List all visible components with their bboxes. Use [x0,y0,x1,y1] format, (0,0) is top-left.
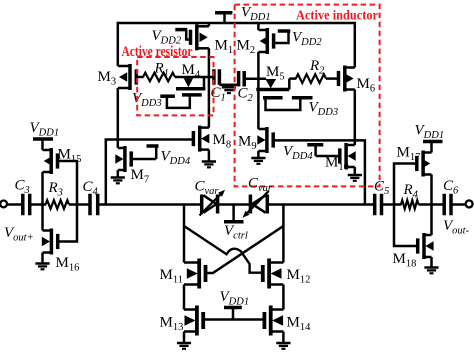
transistor M2 [266,28,270,54]
wire M13 source to ground [183,332,186,344]
wire M2 drain to rail [257,23,260,30]
wire M3 gate lead to R1 [136,76,143,79]
transistor M11 [197,259,201,289]
transistor M6 [343,66,347,92]
capacitor C4 [88,194,92,216]
ground below M18 [424,266,438,269]
wire M11 source to M13 drain [183,285,186,310]
wire M7 source to ground [117,170,120,178]
transistor M7 [123,146,127,172]
wire main line to M16 drain [41,205,44,231]
wire M1 source down to node A [208,48,211,127]
ground shared C1-C2 [222,86,236,89]
capacitor C3 [21,194,25,216]
wire M1 drain to rail [208,23,211,26]
wire C1 inner plate to ground [219,84,229,87]
power V_DD3 bias bar left [160,94,175,98]
wire right outer vertical (M6 to M10 drain) [354,90,357,146]
wire M7 gate lead [131,158,156,161]
power V_DD3 bias bar right [292,96,313,100]
wire C3 to R3 [30,203,46,206]
transistor M8 [198,126,202,152]
wire M9 gate horizontal to output junction [273,140,365,204]
wire left tank branch down to M11 [183,205,186,263]
wire VDD1 to M17 [430,142,433,153]
port Vout+ terminal [0,201,7,208]
wire M15 gate to main line [58,161,78,205]
transistor M3 [128,64,132,90]
wire R3 to C4 [69,203,90,206]
ground below M10 [348,174,362,177]
wire main line varactor segment [218,203,251,206]
resistor R3 [46,200,70,209]
wire M10 source to ground [354,167,357,175]
port Vout- terminal [466,200,473,207]
wire C2 to M5 node [244,77,266,80]
wire M16 gate to main line [58,205,77,242]
wire M14 source to ground [282,332,285,344]
transistor M10 [344,143,348,169]
power V_DD1 bar left [33,137,53,141]
ground below M16 [35,262,49,265]
varactor C_var left [200,195,204,214]
capacitor C1 [212,69,216,85]
transistor M16 [50,229,54,255]
wire V_ctrl stub [232,205,235,222]
transistor M15 [49,148,53,174]
transistor M9 [265,127,269,153]
wire M8 gate horizontal to left junction [106,140,194,205]
wire C5 to R4 [382,203,402,206]
resistor R2 [296,74,326,83]
ground below M8 [202,160,216,163]
transistor M13 [195,306,199,336]
wire M18 source to ground [430,257,433,268]
wire C2 inner plate to ground [229,84,239,87]
power V_DD1 bar bottom [224,306,242,310]
transistor M17 [421,151,425,177]
transistor M14 [269,306,273,336]
wire cross-couple diagonal right-to-left (M12 drain node to M11 gate) [206,226,284,273]
wire C6 to port [451,203,466,206]
wire VDD1 to M15 [41,139,44,150]
wire right outer vertical (rail to M6) [354,22,357,68]
wire right tank branch down to M12 [282,205,285,263]
capacitor C6 [442,194,446,216]
power V_ctrl bar [224,220,244,224]
wire M13-M14 gate line [203,318,264,321]
wire R2 to M6 gate [326,77,339,80]
ground below M9 [251,157,265,160]
power V_DD2 bias bar right [278,29,291,33]
svg-text:Active resistor: Active resistor [122,44,193,60]
annotation box Active inductor [235,5,380,187]
wire node A horizontal (R1 to C1) [175,76,214,79]
wire main line to M18 drain [430,205,433,236]
power V_DD4 bias bar right [307,143,323,147]
wire M15 to main line [41,172,44,205]
wire M9 source to ground [257,151,260,158]
ground below M13 [177,342,191,345]
wire M2 source down to M9 drain [257,52,260,129]
wire M17 to main line [430,175,433,205]
wire top VDD1 rail [118,22,355,25]
svg-text:Active inductor: Active inductor [296,9,378,24]
wire R4 to C6 [419,203,445,206]
power V_DD2 bias bar left [175,28,187,32]
power V_DD1 bar right [423,140,443,144]
wire C4 to varactor section [98,203,202,206]
wire left outer vertical (M3 to M7) [117,88,120,148]
wire port to C3 [7,203,23,206]
transistor M5 (horizontal) [265,79,276,88]
transistor M1 [195,24,199,50]
annotation box Active resistor [137,57,213,115]
varactor C_var right [249,195,253,214]
wire cross-couple diagonal left-to-right with hop (M11 drain node to M12 gate) [184,226,262,273]
transistor M12 [267,259,271,289]
capacitor C2 [237,71,241,87]
capacitor C5 [373,194,377,216]
wire M5 to R2 [289,77,296,80]
wire main line right of varactors [267,203,374,206]
wire M12 source to M14 drain [282,285,285,310]
ground below M7 [111,176,125,179]
ground below M14 [276,342,290,345]
resistor R4 [401,200,419,209]
transistor M18 [422,233,426,259]
power V_DD4 bias bar left [147,144,159,148]
wire M8 source to ground [208,150,211,162]
power V_DD1 top supply bar [215,11,232,15]
wire M17 gate to main line [394,164,417,205]
wire left outer vertical (rail to M3) [117,22,120,66]
wire M16 source to ground [41,253,44,264]
resistor R1 [143,73,175,82]
wire M10 gate lead [316,155,340,158]
transistor M4 (horizontal) [184,78,193,87]
wire M18 gate to main line [394,205,418,247]
